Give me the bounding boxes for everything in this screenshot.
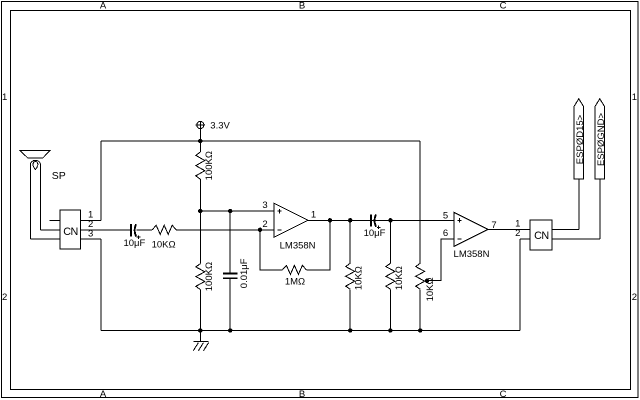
resistor R2 100K&#937;	[196, 211, 215, 330]
wire VR1 wiper to U1B inverting input	[427, 239, 454, 281]
svg-text:5: 5	[443, 210, 448, 221]
resistor R1 100K&#937; (mic bias)	[196, 141, 215, 211]
node U1A inverting input junction	[258, 228, 262, 232]
svg-text:3: 3	[262, 200, 267, 211]
svg-text:A: A	[100, 1, 107, 12]
trimmer VR1 10K&#937;	[416, 263, 436, 330]
svg-text:ESPØD15>: ESPØD15>	[575, 114, 586, 164]
svg-text:ESPØGND>: ESPØGND>	[596, 113, 607, 167]
svg-text:10KΩ: 10KΩ	[152, 239, 176, 250]
resistor R4 1M&#937; (feedback)	[282, 265, 306, 287]
wire SP right terminal to CN1 pin2	[41, 229, 60, 231]
op-amp U1B LM358N	[443, 210, 497, 260]
speaker SP	[20, 151, 66, 240]
wire flag ESP0D15 down to CN2 pin1	[578, 179, 580, 230]
op-amp U1A LM358N	[262, 200, 316, 251]
net flag ESP0GND	[595, 99, 607, 179]
wire bias node to op-amp U1A non-inverting input	[200, 210, 274, 212]
node rail/R1 junction	[198, 139, 202, 143]
connector CN1 pin 2	[81, 219, 131, 230]
wire SP left terminal to CN1 pin3	[30, 238, 59, 240]
svg-text:B: B	[299, 389, 305, 400]
wire CN1 pin1 up to 3.3V rail	[100, 141, 102, 220]
resistor R5 10K&#937;	[346, 220, 365, 330]
svg-text:B: B	[299, 1, 305, 12]
node R5 junction	[348, 218, 352, 222]
node feedback junction	[328, 218, 332, 222]
svg-text:CN: CN	[63, 226, 78, 238]
svg-text:1: 1	[632, 92, 637, 103]
wire CN1 pin3 down to ground rail	[100, 239, 102, 331]
svg-text:LM358N: LM358N	[454, 249, 490, 260]
resistor R3 10K&#937;	[152, 225, 177, 250]
wire U1B output to CN2 pin1	[488, 228, 530, 230]
wire flag ESP0GND down to CN2 pin2	[599, 179, 601, 239]
svg-text:CN: CN	[534, 230, 549, 242]
svg-text:2: 2	[515, 228, 520, 239]
node R6 junction	[388, 218, 392, 222]
connector CN1 pin 3	[81, 228, 101, 239]
capacitor C1 10&#956;F (polarized)	[123, 224, 145, 249]
capacitor C3 10&#956;F (polarized)	[364, 214, 386, 239]
connector CN1 pin 1	[49, 210, 101, 221]
svg-text:10KΩ: 10KΩ	[394, 266, 405, 290]
wire ground rail	[101, 330, 520, 332]
connector CN2 pin 2	[515, 228, 600, 239]
svg-text:2: 2	[2, 292, 7, 303]
net flag ESP0D15	[574, 99, 586, 179]
node bias junction	[198, 209, 202, 213]
svg-text:0.01μF: 0.01μF	[239, 258, 250, 288]
wire U1A output	[308, 219, 454, 221]
wire 3.3V rail	[101, 140, 420, 142]
svg-text:1: 1	[2, 92, 7, 103]
resistor R6 10K&#937;	[386, 220, 405, 330]
svg-text:1: 1	[311, 210, 316, 221]
wire R4 to output node	[306, 220, 330, 270]
svg-text:C: C	[500, 1, 507, 12]
svg-text:SP: SP	[52, 170, 66, 182]
wire CN2 pin2 down to ground rail	[519, 239, 521, 331]
svg-text:LM358N: LM358N	[280, 240, 316, 251]
power symbol 3.3V	[196, 121, 231, 141]
svg-text:10KΩ: 10KΩ	[354, 266, 365, 290]
capacitor C2 0.01&#956;F	[223, 211, 250, 330]
svg-text:2: 2	[632, 292, 637, 303]
connector CN1	[60, 210, 81, 249]
svg-text:2: 2	[262, 219, 267, 230]
svg-text:C: C	[500, 389, 507, 400]
wire rail down to trimmer VR1	[419, 141, 421, 263]
node ground rail junctions	[198, 328, 202, 332]
svg-text:10μF: 10μF	[364, 228, 386, 239]
node C2 tap junction	[228, 209, 232, 213]
svg-text:A: A	[100, 389, 107, 400]
connector CN2 pin 1	[515, 218, 579, 229]
wire C1 to R3	[136, 229, 152, 231]
svg-text:3.3V: 3.3V	[210, 121, 230, 132]
wire R3 to U1A inverting input	[176, 229, 274, 231]
wire U1A feedback loop	[260, 230, 282, 270]
svg-text:6: 6	[443, 228, 448, 239]
svg-text:100KΩ: 100KΩ	[204, 262, 215, 291]
svg-text:10μF: 10μF	[123, 238, 145, 249]
svg-text:1MΩ: 1MΩ	[285, 276, 305, 287]
svg-text:100KΩ: 100KΩ	[204, 151, 215, 180]
svg-text:3: 3	[88, 228, 93, 239]
ground symbol	[193, 331, 208, 351]
connector CN2	[530, 220, 552, 250]
